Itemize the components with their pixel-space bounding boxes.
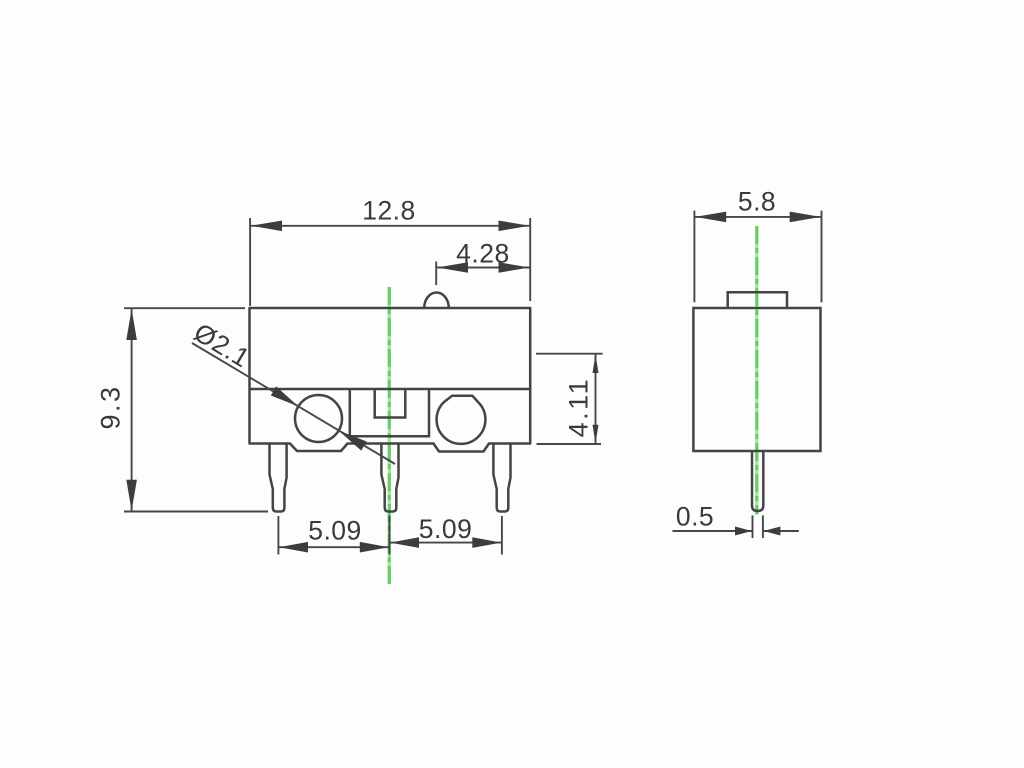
- dim 5.8 line: [694, 216, 821, 218]
- centerline side view (green): [755, 226, 758, 515]
- dim 4.11 extension line top: [536, 353, 603, 355]
- svg-text:9.3: 9.3: [96, 384, 126, 429]
- dim 12.8 arrow right: [499, 221, 530, 232]
- dim 9.3 extension line bottom: [124, 511, 268, 513]
- side view pin: [752, 451, 763, 511]
- dim 0.5 line right: [763, 530, 799, 532]
- side view button: [728, 292, 787, 308]
- centerline front view (green): [388, 287, 391, 584]
- dim 0.5 arrow right: [764, 527, 781, 536]
- dim 5.09 right arrow a: [390, 537, 419, 548]
- dim 4.28 line: [436, 267, 530, 269]
- dim 5.09 tick right: [501, 516, 503, 555]
- dim 5.09 right line: [389, 542, 502, 544]
- dim 5.8 extension line left: [693, 211, 695, 303]
- dim 9.3 arrow bottom: [126, 480, 137, 511]
- body divider line: [250, 388, 531, 391]
- dim 5.8 extension line right: [821, 211, 823, 303]
- side view body: [693, 308, 820, 451]
- actuator button semicircle (front view): [424, 293, 449, 309]
- svg-text:5.09: 5.09: [419, 514, 473, 544]
- svg-text:5.8: 5.8: [738, 187, 776, 217]
- svg-text:5.09: 5.09: [308, 516, 362, 546]
- dim 4.11 extension line bottom: [537, 443, 601, 445]
- dim 5.09 tick middle: [388, 516, 390, 555]
- dim 0.5 extension line right: [762, 515, 764, 538]
- dim 4.28 extension line: [435, 262, 437, 286]
- dim 5.09 tick left: [277, 516, 279, 555]
- dim dia 2.1 arrow upper: [271, 386, 299, 406]
- dim 9.3 extension line top: [124, 307, 245, 309]
- middle notch: [375, 389, 406, 418]
- dim 4.28 arrow left: [437, 262, 468, 273]
- dim 12.8 extension line left: [249, 218, 251, 306]
- dim 4.28 arrow right: [499, 262, 530, 273]
- svg-text:0.5: 0.5: [676, 502, 714, 532]
- dim 12.8 arrow left: [251, 221, 282, 232]
- dim 4.11 arrow top: [593, 355, 599, 374]
- right hole chamfered circle: [437, 396, 486, 444]
- pin right: [493, 444, 510, 512]
- dim 5.09 left arrow a: [279, 542, 308, 553]
- left hole circle: [295, 395, 342, 442]
- dim 9.3 line: [131, 308, 133, 511]
- pin left: [270, 444, 287, 512]
- dim dia 2.1 leader line: [192, 343, 395, 464]
- dim 5.09 left arrow b: [360, 542, 389, 553]
- dim dia 2.1 arrow lower: [339, 431, 367, 451]
- dim 12.8 line: [250, 225, 530, 227]
- svg-text:4.28: 4.28: [456, 238, 510, 268]
- dim 9.3 arrow top: [126, 309, 137, 340]
- dim 4.11 line: [595, 354, 597, 444]
- dim 12.8 extension line right: [529, 218, 531, 301]
- svg-text:12.8: 12.8: [362, 196, 416, 226]
- dim 5.09 right arrow b: [472, 537, 501, 548]
- dim 5.8 arrow right: [790, 212, 821, 223]
- middle terminal box: [350, 389, 429, 436]
- svg-text:4.11: 4.11: [563, 377, 593, 438]
- dim 5.09 left line: [278, 546, 389, 548]
- dim 4.11 arrow bottom: [593, 425, 599, 444]
- dim 0.5 extension line left: [752, 515, 754, 538]
- dim 0.5 line left: [673, 530, 753, 532]
- dim 5.8 arrow left: [695, 212, 726, 223]
- dim 0.5 arrow left: [735, 527, 752, 536]
- switch body outline (front view): [250, 308, 531, 452]
- pin middle: [381, 444, 398, 512]
